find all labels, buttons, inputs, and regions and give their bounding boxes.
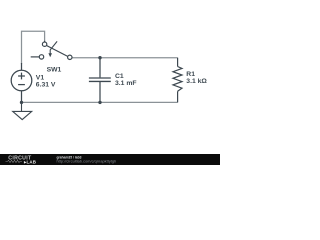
svg-text:http://circuitlab.com/c/qrnapk: http://circuitlab.com/c/qrnapkttytgh bbox=[57, 159, 117, 163]
footer bar bbox=[0, 154, 220, 165]
wire top rail from switch to R1 bbox=[72, 57, 178, 59]
wire from V1 top to switch top terminal bbox=[22, 31, 45, 64]
ground bbox=[13, 102, 32, 119]
svg-text:3.1 kΩ: 3.1 kΩ bbox=[186, 78, 207, 85]
svg-text:R1: R1 bbox=[186, 71, 195, 78]
wire bottom rail bbox=[22, 101, 178, 103]
resistor R1 bbox=[173, 58, 182, 103]
capacitor C1 bbox=[89, 58, 111, 103]
footer CircuitLab logo bbox=[6, 155, 37, 164]
switch SW1 bbox=[31, 41, 72, 60]
svg-text:6.31 V: 6.31 V bbox=[36, 82, 56, 89]
junction dot at C1 top bbox=[98, 56, 101, 59]
switch SW1 actuator arrow bbox=[48, 41, 57, 57]
junction dot at C1 bottom bbox=[98, 101, 101, 104]
svg-text:▸LAB: ▸LAB bbox=[23, 159, 36, 164]
svg-text:3.1 mF: 3.1 mF bbox=[115, 80, 137, 87]
junction dot at V1 bottom / ground bbox=[20, 101, 23, 104]
svg-text:SW1: SW1 bbox=[47, 67, 62, 74]
voltage source V1 bbox=[11, 63, 32, 102]
